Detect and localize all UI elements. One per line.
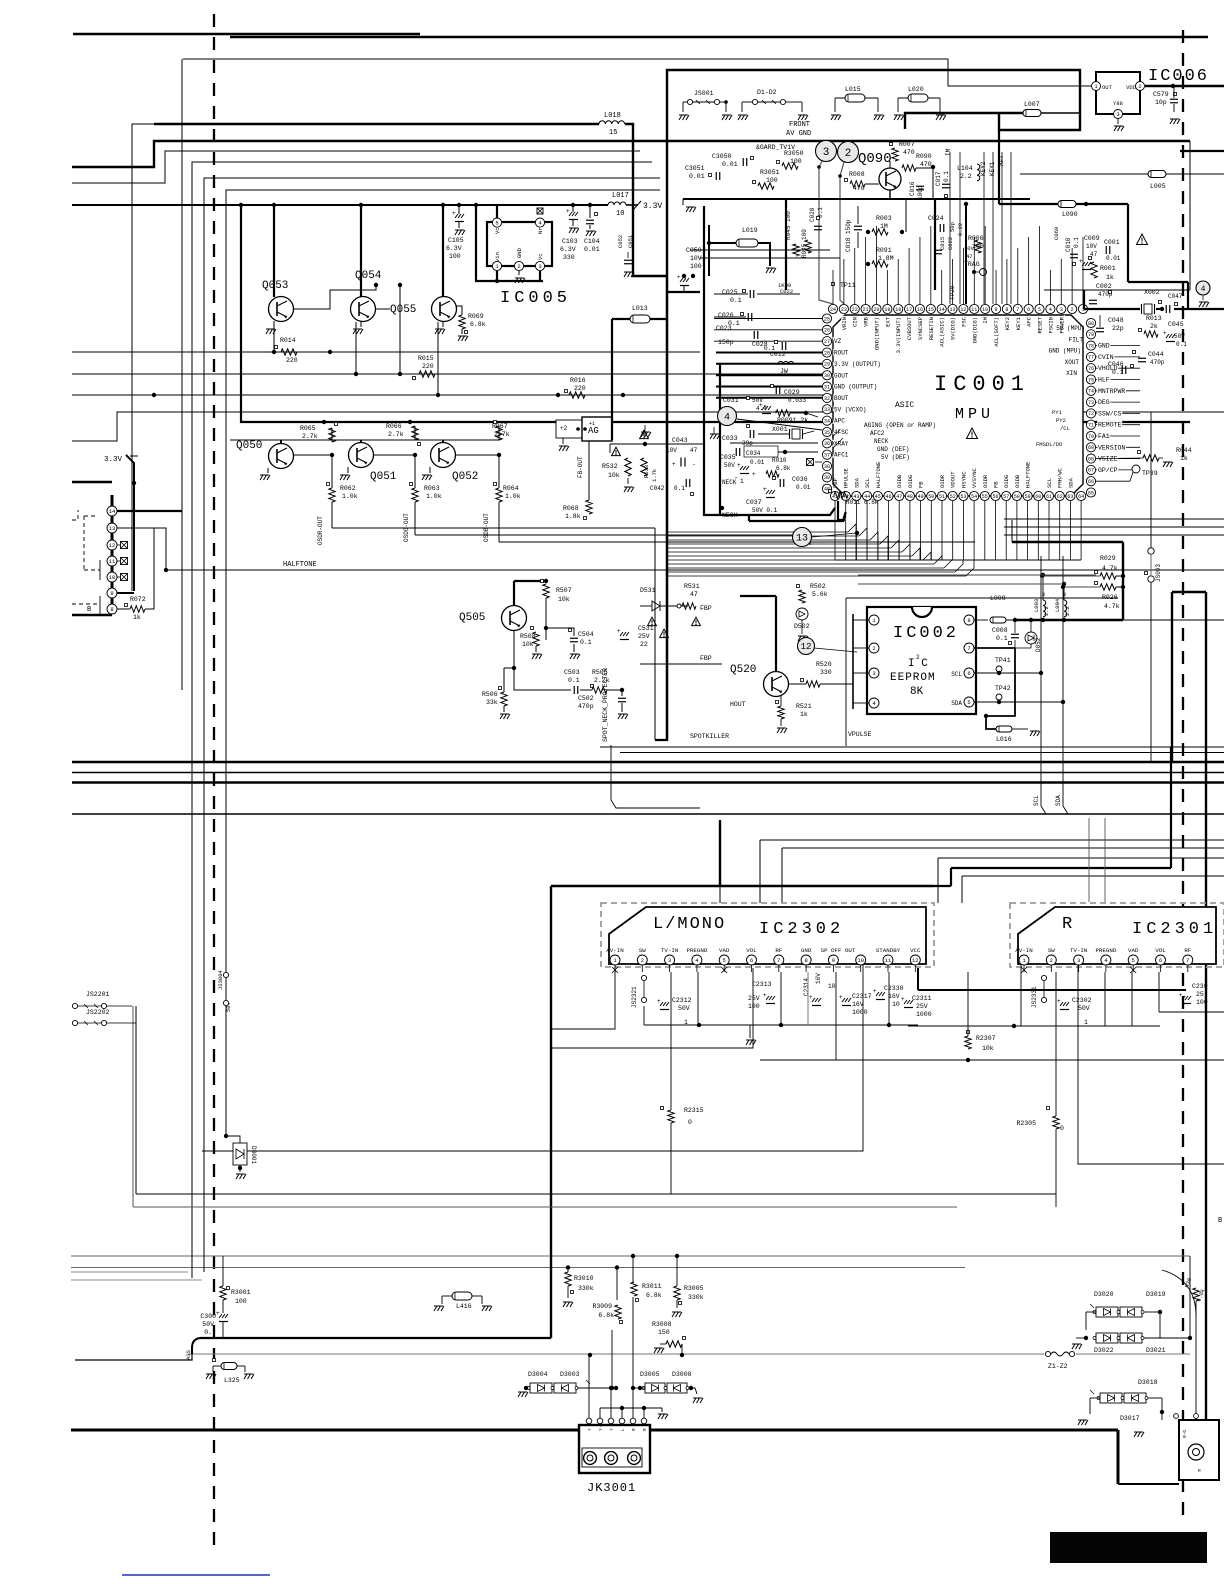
svg-text:C029: C029 bbox=[784, 389, 800, 396]
IC001 pin 1 bbox=[1078, 304, 1087, 313]
svg-text:SYNCSEP: SYNCSEP bbox=[917, 317, 924, 340]
svg-text:330: 330 bbox=[563, 254, 575, 261]
wire lines right mid bbox=[1004, 518, 1224, 520]
svg-text:JS2321: JS2321 bbox=[631, 986, 638, 1008]
svg-text:GND(INPUT): GND(INPUT) bbox=[873, 317, 880, 350]
svg-text:54: 54 bbox=[971, 494, 977, 500]
svg-text:/CL: /CL bbox=[1060, 425, 1070, 432]
svg-text:1.0k: 1.0k bbox=[342, 493, 358, 500]
svg-text:16V: 16V bbox=[852, 1001, 864, 1008]
svg-text:+: + bbox=[677, 274, 681, 281]
svg-text:12: 12 bbox=[801, 642, 812, 652]
svg-text:-: - bbox=[692, 461, 696, 468]
svg-text:L104: L104 bbox=[957, 165, 973, 172]
wire ic2301 feed verticals bbox=[1088, 818, 1090, 902]
svg-text:-: - bbox=[742, 409, 746, 417]
svg-text:C052: C052 bbox=[617, 235, 624, 248]
wire thick right U net bbox=[1012, 541, 1123, 543]
svg-text:JS2202: JS2202 bbox=[86, 1009, 110, 1016]
svg-text:64: 64 bbox=[1078, 494, 1084, 500]
svg-text:+1: +1 bbox=[589, 421, 595, 427]
svg-text:6.3V: 6.3V bbox=[560, 246, 576, 253]
svg-text:CIN: CIN bbox=[852, 317, 859, 327]
IC001 pin 26 bbox=[822, 325, 831, 334]
junction dots on 3.3V rail bbox=[239, 203, 243, 207]
IC001 pin 67 bbox=[1086, 465, 1095, 474]
node 4b circle bbox=[1196, 281, 1210, 295]
IC001 pin 36 bbox=[822, 439, 831, 448]
svg-text:6: 6 bbox=[750, 957, 753, 964]
IC001 pin 52 bbox=[948, 491, 957, 500]
svg-text:61: 61 bbox=[1046, 494, 1052, 500]
svg-text:0.033: 0.033 bbox=[788, 397, 806, 404]
svg-text:R064: R064 bbox=[503, 485, 519, 492]
svg-text:+: + bbox=[1163, 330, 1167, 337]
svg-text:2: 2 bbox=[1138, 83, 1141, 90]
svg-text:C300: C300 bbox=[200, 1313, 216, 1320]
svg-text:51: 51 bbox=[939, 494, 945, 500]
inductor L016 bbox=[986, 716, 996, 729]
svg-text:STANDBY: STANDBY bbox=[876, 947, 901, 954]
wire audio rails bbox=[644, 1024, 918, 1026]
wire scl sda up to ic001 bbox=[1040, 556, 1042, 673]
svg-text:76: 76 bbox=[1088, 366, 1094, 372]
IC001 pin 11 bbox=[970, 304, 979, 313]
label HALFTONE bbox=[164, 568, 168, 572]
left connector body bbox=[111, 495, 114, 612]
test point TP11 bbox=[832, 283, 835, 286]
wire thick x786 bbox=[785, 199, 787, 290]
svg-text:L018: L018 bbox=[604, 112, 621, 120]
svg-text:4: 4 bbox=[1049, 307, 1052, 313]
svg-text:R011 6.8k: R011 6.8k bbox=[846, 499, 879, 506]
svg-text:FSCIN: FSCIN bbox=[1047, 317, 1054, 334]
IC001 pin 39 bbox=[822, 473, 831, 482]
IC006 pin 2 bbox=[1136, 82, 1145, 91]
IC001 pin 44 bbox=[863, 491, 872, 500]
svg-text:GND(DIG): GND(DIG) bbox=[971, 317, 978, 343]
wire RGB out thick leads bbox=[716, 352, 822, 354]
svg-text:10k: 10k bbox=[522, 641, 534, 648]
svg-text:C3051: C3051 bbox=[685, 165, 705, 172]
IC001 pin 43 bbox=[852, 491, 861, 500]
wire top border bus bbox=[73, 33, 420, 36]
svg-text:14: 14 bbox=[109, 508, 116, 515]
svg-text:5V(DIG): 5V(DIG) bbox=[950, 317, 957, 340]
wire bus horizontal y814 bbox=[72, 813, 1224, 815]
IC001 pin 33 bbox=[822, 405, 831, 414]
svg-text:R072: R072 bbox=[130, 596, 146, 603]
svg-text:100: 100 bbox=[235, 1298, 247, 1305]
svg-text:R010: R010 bbox=[772, 457, 787, 464]
svg-text:+: + bbox=[839, 994, 843, 1001]
svg-text:L020: L020 bbox=[908, 86, 924, 93]
svg-text:36: 36 bbox=[824, 441, 830, 447]
dashed connector outline bbox=[84, 515, 97, 517]
wire verticals into audio bbox=[719, 820, 721, 886]
svg-text:L/MONO: L/MONO bbox=[653, 915, 726, 934]
svg-text:11: 11 bbox=[971, 307, 977, 313]
svg-text:C103: C103 bbox=[562, 238, 578, 245]
svg-text:PY2: PY2 bbox=[1056, 417, 1066, 424]
svg-text:+: + bbox=[1179, 992, 1183, 999]
IC001 pin 42 bbox=[841, 491, 850, 500]
svg-text:C018 150p: C018 150p bbox=[845, 219, 852, 252]
svg-text:2: 2 bbox=[916, 654, 920, 661]
svg-text:C002: C002 bbox=[1096, 283, 1112, 290]
svg-text:IC2301: IC2301 bbox=[1132, 920, 1217, 939]
svg-text:AV-IN: AV-IN bbox=[606, 947, 624, 954]
svg-text:R091: R091 bbox=[876, 247, 892, 254]
svg-text:67: 67 bbox=[1088, 468, 1094, 474]
svg-text:2: 2 bbox=[517, 263, 520, 270]
svg-text:FBP: FBP bbox=[832, 478, 839, 488]
svg-text:78: 78 bbox=[1088, 343, 1094, 349]
wire thick right corner 1206 bbox=[1172, 591, 1206, 593]
svg-text:R063: R063 bbox=[424, 485, 440, 492]
wire ic001 bottom rail bbox=[835, 559, 1081, 561]
svg-text:100p: 100p bbox=[917, 185, 924, 200]
svg-text:+: + bbox=[452, 210, 456, 217]
wire q090 links bbox=[889, 161, 891, 168]
svg-text:VAD: VAD bbox=[719, 947, 730, 954]
wire rail 3.3V y205 bbox=[72, 204, 608, 206]
svg-text:GND: GND bbox=[516, 247, 523, 258]
IC001 pin 34 bbox=[822, 416, 831, 425]
resistor R2307 bbox=[967, 1031, 970, 1034]
svg-text:56: 56 bbox=[992, 494, 998, 500]
IC002 pin 7 bbox=[964, 643, 974, 653]
svg-text:+: + bbox=[617, 628, 621, 635]
svg-text:10V: 10V bbox=[1086, 243, 1097, 250]
svg-text:NECK: NECK bbox=[874, 438, 889, 445]
capacitor C504 bbox=[569, 629, 572, 632]
svg-text:R090: R090 bbox=[916, 153, 932, 160]
svg-text:B: B bbox=[1218, 1217, 1222, 1225]
svg-text:0.01: 0.01 bbox=[750, 459, 765, 466]
inductor L007 bbox=[905, 113, 1023, 129]
svg-text:B: B bbox=[1063, 592, 1066, 598]
svg-text:18: 18 bbox=[895, 307, 901, 313]
svg-text:7: 7 bbox=[777, 957, 780, 964]
svg-text:5: 5 bbox=[723, 957, 726, 964]
svg-text:R532: R532 bbox=[602, 463, 618, 470]
IC001 pin 28 bbox=[822, 348, 831, 357]
svg-text:TV-IN: TV-IN bbox=[661, 947, 679, 954]
svg-text:3: 3 bbox=[1077, 957, 1080, 964]
wire q505 collector bbox=[513, 581, 515, 605]
dashed page-boundary line left bbox=[213, 14, 215, 1548]
svg-text:38: 38 bbox=[824, 464, 830, 470]
wire ic002 top grey nets bbox=[858, 574, 1096, 576]
svg-text:0.1: 0.1 bbox=[674, 485, 685, 492]
svg-text:PREGND: PREGND bbox=[686, 947, 707, 954]
wire IC006 out bbox=[948, 59, 1091, 86]
IC001 pin 19 bbox=[883, 304, 892, 313]
svg-text:100: 100 bbox=[1196, 999, 1208, 1006]
svg-text:VVSYNC: VVSYNC bbox=[971, 467, 978, 488]
wire q05x bases bbox=[293, 285, 376, 309]
wire r532 row bbox=[610, 443, 704, 445]
svg-text:C033: C033 bbox=[722, 435, 738, 442]
IC001 pin 74 bbox=[1086, 386, 1095, 395]
svg-text:R003: R003 bbox=[876, 215, 892, 222]
svg-text:JS2201: JS2201 bbox=[86, 991, 110, 998]
svg-text:74: 74 bbox=[1088, 389, 1094, 395]
svg-text:FRONT: FRONT bbox=[789, 121, 810, 129]
wire L013 drop x612 bbox=[611, 319, 613, 440]
IC U IC2301 dashed outline bbox=[1010, 903, 1224, 967]
wire bus horizontal y772 bbox=[72, 772, 1224, 774]
svg-text:C031: C031 bbox=[723, 397, 739, 404]
diode pair D3022 D3021 bbox=[1096, 1333, 1118, 1343]
svg-text:C044: C044 bbox=[1148, 351, 1164, 358]
IC001 pin 62 bbox=[1055, 491, 1064, 500]
svg-text:8: 8 bbox=[967, 617, 970, 624]
IC002 pin 4 bbox=[869, 698, 879, 708]
svg-text:C579: C579 bbox=[1153, 91, 1169, 98]
capacitor C105 bbox=[455, 214, 464, 218]
svg-text:1.0k: 1.0k bbox=[505, 493, 521, 500]
svg-text:25: 25 bbox=[824, 316, 830, 322]
IC2301 pin 4 bbox=[1101, 955, 1111, 965]
svg-text:XOUT: XOUT bbox=[1065, 359, 1080, 366]
wire ic001 right leads bbox=[1096, 345, 1140, 347]
svg-text:8: 8 bbox=[804, 957, 807, 964]
svg-text:D3022: D3022 bbox=[1094, 1347, 1114, 1354]
IC001 pin 5 bbox=[1035, 304, 1044, 313]
svg-text:GND (OUTPUT): GND (OUTPUT) bbox=[834, 384, 877, 391]
diode D502 bbox=[796, 608, 808, 620]
svg-text:C3050: C3050 bbox=[712, 153, 732, 160]
svg-text:JS3004: JS3004 bbox=[217, 969, 224, 990]
svg-text:71: 71 bbox=[1088, 423, 1094, 429]
inductor L017 bbox=[608, 202, 626, 205]
IC002 pin 3 bbox=[869, 668, 879, 678]
svg-text:JW: JW bbox=[780, 368, 788, 375]
wire bottom fan verticals to bus bbox=[838, 501, 845, 520]
svg-text:FSC: FSC bbox=[960, 316, 967, 327]
svg-text:SPOTKILLER: SPOTKILLER bbox=[690, 733, 729, 740]
svg-text:R: R bbox=[642, 1428, 648, 1431]
IC005 pin 2 bbox=[514, 261, 523, 270]
svg-text:3: 3 bbox=[668, 957, 671, 964]
svg-text:GOUT: GOUT bbox=[834, 372, 849, 379]
svg-text:L090: L090 bbox=[1062, 211, 1078, 218]
svg-text:7: 7 bbox=[967, 645, 970, 652]
wire bundle corner x165 bbox=[72, 151, 640, 183]
svg-text:Q505: Q505 bbox=[459, 612, 485, 624]
ground Q052 bbox=[429, 467, 431, 473]
svg-text:60: 60 bbox=[1035, 494, 1041, 500]
svg-text:+: + bbox=[763, 486, 767, 493]
svg-text:15: 15 bbox=[928, 307, 934, 313]
svg-text:21: 21 bbox=[863, 307, 869, 313]
inductor L015 bbox=[845, 94, 865, 102]
svg-text:R013: R013 bbox=[1146, 315, 1162, 322]
svg-text:1: 1 bbox=[1084, 1019, 1088, 1026]
no-connect pin38 bbox=[807, 459, 814, 466]
svg-text:16V: 16V bbox=[888, 993, 900, 1000]
svg-text:31: 31 bbox=[824, 384, 830, 390]
svg-text:1.8M: 1.8M bbox=[878, 255, 894, 262]
svg-text:R0091.2k: R0091.2k bbox=[777, 417, 808, 424]
wire VCC thick bbox=[917, 968, 919, 990]
svg-text:24: 24 bbox=[830, 307, 836, 313]
svg-text:3: 3 bbox=[538, 263, 541, 270]
IC001 pin 21 bbox=[861, 304, 870, 313]
svg-text:IC002: IC002 bbox=[893, 624, 959, 643]
wire pin13 net bbox=[117, 528, 166, 570]
wire bundle thick L018 y124 bbox=[154, 123, 599, 125]
svg-text:FB: FB bbox=[993, 481, 1000, 488]
svg-text:0.1: 0.1 bbox=[568, 677, 580, 684]
svg-text:JS093: JS093 bbox=[1155, 564, 1162, 582]
svg-text:5: 5 bbox=[1038, 307, 1041, 313]
svg-text:22: 22 bbox=[640, 641, 648, 648]
IC001 pin 31 bbox=[822, 382, 831, 391]
wire y1207 net bbox=[133, 1206, 957, 1208]
left connector pin 13 bbox=[107, 523, 117, 533]
left connector pin 14 bbox=[107, 506, 117, 516]
svg-text:2: 2 bbox=[641, 957, 644, 964]
wire grey bottom lines bbox=[71, 1255, 1190, 1257]
diodes D1-D2 bbox=[752, 99, 757, 104]
svg-text:0.01: 0.01 bbox=[796, 484, 811, 491]
IC001 pin 78 bbox=[1086, 341, 1095, 350]
svg-text:0: 0 bbox=[1060, 1125, 1064, 1132]
svg-text:CVIN: CVIN bbox=[1098, 354, 1114, 361]
wire gard thick y199 bbox=[683, 198, 1030, 200]
wire right vertical thick x1128 bbox=[1127, 204, 1129, 282]
svg-text:R029: R029 bbox=[1100, 555, 1116, 562]
svg-text:+: + bbox=[809, 994, 813, 1001]
IC001 pin 9 bbox=[991, 304, 1000, 313]
test point TP39 bbox=[1132, 465, 1140, 473]
svg-text:D3021: D3021 bbox=[1146, 1347, 1166, 1354]
svg-text:SDA: SDA bbox=[1067, 477, 1074, 488]
svg-text:SSW/CS: SSW/CS bbox=[1098, 410, 1122, 417]
resistor R2305 bbox=[1047, 1107, 1050, 1110]
svg-text:50: 50 bbox=[928, 494, 934, 500]
IC001 pin 40 bbox=[822, 484, 831, 493]
svg-text:C105: C105 bbox=[448, 237, 464, 244]
svg-text:330: 330 bbox=[820, 669, 832, 676]
svg-text:NECK: NECK bbox=[722, 479, 737, 486]
svg-text:C042: C042 bbox=[650, 485, 665, 492]
svg-text:L008: L008 bbox=[990, 595, 1006, 602]
capacitor C502 bbox=[618, 697, 626, 699]
svg-text:D1-D2: D1-D2 bbox=[757, 89, 777, 96]
svg-text:50V: 50V bbox=[202, 1321, 214, 1328]
svg-text:C2311: C2311 bbox=[912, 995, 932, 1002]
svg-text:SDA: SDA bbox=[853, 477, 860, 488]
svg-text:C022: C022 bbox=[947, 237, 954, 250]
svg-text:EEPROM: EEPROM bbox=[890, 672, 936, 684]
svg-text:VSIZE: VSIZE bbox=[1098, 456, 1118, 463]
svg-text:TP11: TP11 bbox=[840, 282, 856, 289]
svg-text:L016: L016 bbox=[996, 736, 1012, 743]
svg-text:4FSC: 4FSC bbox=[834, 429, 849, 436]
svg-text:6: 6 bbox=[1159, 957, 1162, 964]
svg-text:TP41: TP41 bbox=[995, 657, 1011, 664]
svg-text:C047: C047 bbox=[1168, 293, 1183, 300]
svg-text:L325: L325 bbox=[224, 1377, 240, 1384]
svg-text:+: + bbox=[759, 402, 763, 409]
svg-text:R: R bbox=[1062, 915, 1074, 934]
svg-text:72: 72 bbox=[1088, 411, 1094, 417]
svg-text:C2302: C2302 bbox=[1072, 997, 1092, 1004]
IC002 pin 1 bbox=[869, 615, 879, 625]
IC001 pin 20 bbox=[872, 304, 881, 313]
svg-text:1k: 1k bbox=[1106, 274, 1114, 281]
inductor L090 bbox=[998, 130, 1000, 204]
node 3 circle bbox=[816, 141, 837, 162]
svg-text:C531: C531 bbox=[638, 625, 654, 632]
wire bottom thick board edge bbox=[71, 1429, 1118, 1432]
svg-text:AG: AG bbox=[588, 426, 599, 436]
wire bus horizontal y762 bbox=[72, 761, 1224, 764]
svg-text:73: 73 bbox=[1088, 400, 1094, 406]
wire bundle corner x204 bbox=[204, 178, 660, 1272]
svg-text:R3050: R3050 bbox=[784, 150, 804, 157]
svg-text:66: 66 bbox=[1088, 479, 1094, 485]
svg-text:HALFTONE: HALFTONE bbox=[283, 561, 317, 569]
svg-text:1k: 1k bbox=[133, 614, 141, 621]
connector bottom right bbox=[1179, 1420, 1219, 1480]
ground Q053 bbox=[273, 321, 275, 327]
label 3.3V arrow bbox=[626, 204, 638, 206]
svg-text:EXT: EXT bbox=[884, 316, 891, 327]
svg-text:OSDB-OUT: OSDB-OUT bbox=[483, 513, 490, 542]
wire pin9 3.3v bbox=[117, 592, 134, 594]
svg-text:OSDG: OSDG bbox=[907, 475, 914, 488]
junction L090 nets bbox=[964, 202, 968, 206]
svg-text:3: 3 bbox=[823, 147, 830, 159]
svg-text:0.1: 0.1 bbox=[730, 297, 742, 304]
svg-text:1.7k: 1.7k bbox=[651, 468, 658, 482]
wire scl sda nets bbox=[1039, 671, 1043, 675]
svg-text:Q053: Q053 bbox=[262, 280, 288, 292]
IC2302 pin 1 bbox=[610, 955, 620, 965]
svg-text:OSDB: OSDB bbox=[1014, 474, 1021, 488]
svg-text:10: 10 bbox=[616, 210, 624, 218]
IC001 pin 17 bbox=[904, 304, 913, 313]
svg-text:37: 37 bbox=[824, 453, 830, 459]
svg-text:R: R bbox=[631, 1428, 637, 1431]
svg-text:R521: R521 bbox=[796, 703, 812, 710]
svg-text:5V (MPU): 5V (MPU) bbox=[1056, 325, 1085, 332]
wire bottom right verticals bbox=[1189, 1256, 1191, 1338]
svg-text:GND (DEF): GND (DEF) bbox=[877, 446, 909, 453]
svg-text:+2: +2 bbox=[560, 425, 568, 432]
wire left connector feeds bbox=[72, 481, 112, 484]
wire jk3001 feeds bbox=[588, 1355, 590, 1420]
svg-text:Q050: Q050 bbox=[236, 440, 262, 452]
svg-text:KEY2: KEY2 bbox=[1004, 317, 1011, 330]
svg-text:13: 13 bbox=[950, 307, 956, 313]
IC2301 pin 7 bbox=[1183, 955, 1193, 965]
svg-text:DEG: DEG bbox=[1098, 399, 1110, 406]
svg-text:FBP: FBP bbox=[700, 605, 712, 612]
svg-text:10k: 10k bbox=[608, 472, 620, 479]
svg-text:C048: C048 bbox=[1108, 317, 1124, 324]
IC2302 pin 10 bbox=[856, 955, 866, 965]
wire bundle corner thin x132 bbox=[132, 124, 154, 591]
IC U IC006 box bbox=[1096, 72, 1140, 114]
ground cluster left of ic001 bbox=[641, 432, 651, 437]
svg-text:D3008: D3008 bbox=[672, 1371, 692, 1378]
